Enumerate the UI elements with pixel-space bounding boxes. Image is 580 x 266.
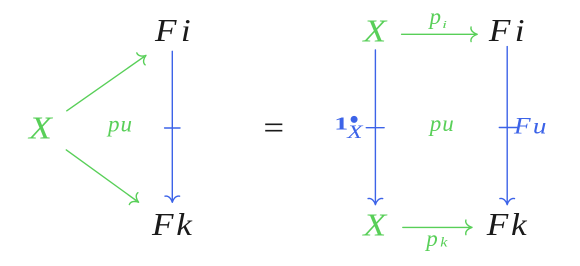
svg-text:pu: pu — [106, 112, 133, 137]
svg-text:Fi: Fi — [488, 13, 529, 48]
label 1^bullet_X (identity 2-cell) — [334, 114, 364, 142]
arrow X to Fk labelled p_k (green horizontal bottom) — [403, 220, 472, 235]
svg-text:Fu: Fu — [513, 114, 549, 139]
arrow X to Fi labelled p_i (green horizontal top) — [402, 27, 478, 42]
svg-text:Fi: Fi — [154, 13, 195, 48]
svg-text:p: p — [424, 226, 438, 251]
svg-text:i: i — [442, 19, 447, 31]
svg-text:Fk: Fk — [151, 207, 195, 242]
svg-text:Fk: Fk — [486, 208, 530, 243]
svg-text:X: X — [346, 121, 364, 142]
svg-text:X: X — [27, 110, 54, 146]
svg-text:k: k — [440, 235, 447, 250]
svg-text:X: X — [361, 13, 388, 49]
arrow X to Fk (green diagonal) — [66, 150, 143, 208]
tick on blue arrow (left diagram) — [165, 127, 180, 129]
svg-text:X: X — [361, 207, 388, 243]
arrow Fi to Fk (blue vertical, left diagram) — [165, 51, 180, 202]
tick on right vertical arrow — [499, 127, 517, 129]
svg-text:p: p — [428, 4, 442, 29]
svg-text:pu: pu — [428, 111, 455, 136]
svg-text:1: 1 — [334, 114, 348, 134]
svg-text:=: = — [263, 110, 284, 145]
arrow X to Fi (green diagonal) — [67, 49, 150, 110]
arrow X to X (blue vertical left of square) — [366, 50, 384, 205]
tick on left vertical arrow — [366, 127, 384, 129]
arrow Fi to Fk (blue vertical right of square) — [499, 47, 517, 205]
